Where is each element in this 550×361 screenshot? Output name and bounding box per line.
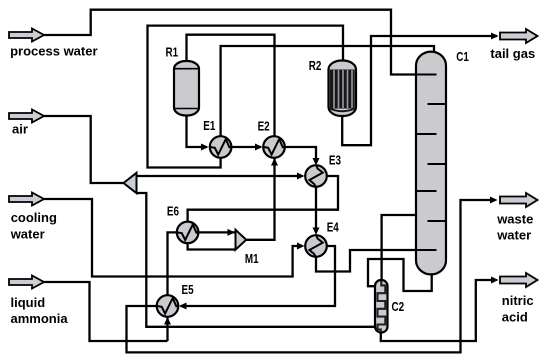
svg-text:process water: process water: [10, 43, 97, 58]
wire: liquid ammonia feed line: [44, 282, 168, 341]
flow arrowhead into E2 left: [255, 144, 263, 151]
wire: E6 right to M1 upper inlet: [198, 231, 235, 233]
flow arrowhead into E3 top: [313, 158, 320, 166]
wire: E4 bottom to C1 mid inlet: [316, 250, 437, 272]
svg-text:cooling: cooling: [11, 210, 57, 225]
svg-text:E1: E1: [203, 120, 216, 134]
wire: expander top outlet to E3 left: [137, 175, 298, 177]
svg-text:E4: E4: [327, 221, 340, 235]
heat exchanger E3 (Z plate type): [305, 165, 327, 187]
flow arrowhead into E4 left: [297, 243, 305, 250]
output block arrow: waste water: [500, 193, 538, 207]
svg-text:water: water: [496, 227, 531, 242]
mixer M1: [236, 230, 247, 250]
svg-text:R1: R1: [166, 46, 179, 60]
wire: E5 left to waste water via bottom run: [127, 200, 495, 352]
stripper column C2 with coil: [375, 280, 388, 333]
flow arrowhead before tail gas arrow: [491, 33, 499, 40]
flow arrowhead into E2 bottom: [271, 158, 278, 166]
heat exchanger E4 (Z plate type): [305, 235, 327, 257]
svg-text:E2: E2: [258, 120, 270, 134]
wire: E1 top to C1 dome top: [221, 46, 434, 136]
svg-text:air: air: [12, 121, 28, 136]
svg-text:C1: C1: [456, 51, 469, 65]
svg-text:tail gas: tail gas: [490, 46, 535, 61]
flow arrowhead into E1 left: [201, 144, 209, 151]
heat exchanger E1: [210, 136, 232, 158]
C1 tray 6 (right): [428, 220, 447, 222]
input block arrow: liquid ammonia: [9, 276, 44, 289]
svg-text:liquid: liquid: [11, 295, 46, 310]
flow arrowhead into E3 left: [297, 173, 305, 180]
wire: E1 right to E2 left: [231, 146, 261, 148]
svg-text:waste: waste: [496, 212, 533, 227]
wire: C1 side outlet to C2 top: [382, 215, 416, 281]
flow arrowhead into M1 upper inlet: [228, 229, 236, 236]
wire: E1 bottom loop around R1 to R2 top: [148, 26, 344, 168]
heat exchanger E6: [177, 222, 199, 244]
wire: E4 right to E5 right: [181, 246, 336, 306]
svg-text:M1: M1: [245, 253, 259, 267]
wire: process water feed line: [44, 10, 437, 75]
wire: M1 outlet to E2 bottom: [246, 158, 275, 240]
wire: E5 bottom riser: [166, 317, 168, 341]
svg-text:E6: E6: [167, 205, 179, 219]
C1 tray 5 (left): [416, 190, 437, 192]
svg-text:C2: C2: [392, 301, 405, 315]
C1 tray 7 (left, feed): [416, 249, 437, 251]
input block arrow: air: [9, 110, 44, 123]
reactor R1: [174, 61, 199, 116]
heat exchanger E2: [263, 136, 285, 158]
flow arrowhead into E5 right: [179, 303, 187, 310]
C1 tray 2 (right): [428, 103, 447, 105]
input block arrow: process water: [9, 29, 44, 42]
output block arrow: tail gas: [500, 29, 538, 43]
svg-text:E3: E3: [329, 154, 341, 168]
output block arrow: nitric acid: [500, 273, 538, 287]
flow arrowhead into E4 top: [313, 228, 320, 236]
C1 tray 1 (left, feed): [416, 74, 437, 76]
wire: R2 bottom to tail gas: [342, 36, 497, 145]
flow arrowhead before waste water arrow: [490, 197, 498, 204]
wire: E2 right to E3 top: [285, 147, 316, 163]
C1 tray 3 (left): [416, 133, 437, 135]
svg-text:E5: E5: [182, 284, 195, 298]
wire: C2 bottom to nitric acid: [381, 280, 494, 341]
wire: E6 bottom to M1 lower inlet: [188, 243, 236, 249]
absorption column C1: [416, 52, 446, 275]
svg-text:R2: R2: [309, 60, 322, 74]
C1 tray 4 (right): [428, 163, 447, 165]
wire: E3 bottom to E4 top: [315, 187, 317, 232]
reactor R2 (catalytic, striped): [329, 61, 357, 117]
wire: air feed line: [43, 116, 123, 183]
svg-text:ammonia: ammonia: [11, 311, 69, 326]
svg-text:nitric: nitric: [502, 293, 534, 308]
wire: R1 top to E2 top: [187, 35, 275, 137]
wire: C1 bottom outlet to C2 upper-left inlet: [368, 259, 432, 291]
flow arrowhead into E5 bottom: [164, 317, 171, 325]
wire: expander bottom outlet to E5 riser: [137, 193, 168, 327]
heat exchanger E5 (ammonia evaporator): [157, 295, 179, 317]
wire: R1 bottom to E1 left: [187, 115, 208, 147]
wire: E5 riser to C2 lower-left inlet: [168, 326, 376, 328]
expander triangle (air): [124, 173, 137, 193]
wire: E3 right to E6 top: [188, 176, 338, 222]
input block arrow: cooling water: [9, 193, 44, 206]
flow arrowhead before nitric acid arrow: [491, 277, 499, 284]
wire: E5 top to E6 left: [168, 232, 177, 295]
svg-text:acid: acid: [502, 309, 528, 324]
wire: cooling water feed line to E4 left: [43, 199, 297, 277]
svg-text:water: water: [10, 226, 45, 241]
